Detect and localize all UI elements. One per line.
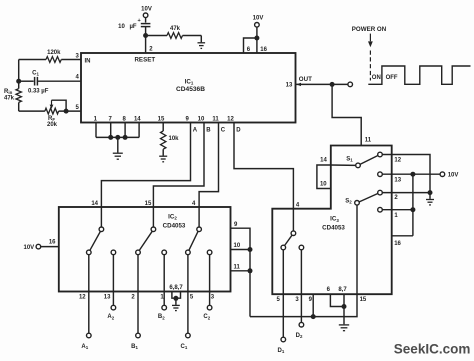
svg-text:47k: 47k (4, 95, 15, 101)
junction bus center (115, 135, 120, 140)
wire to ground (U3) (343, 307, 345, 325)
switch D throw right (299, 245, 304, 250)
terminal OUT (348, 82, 353, 87)
svg-text:µF: µF (129, 24, 136, 30)
svg-text:+: + (137, 18, 140, 24)
wire OUT (296, 83, 349, 85)
wire node to capacitor C1 (19, 80, 34, 82)
junction RF wiper tie (64, 109, 69, 114)
wire A1: throw to terminal (88, 255, 90, 334)
wire branch to U3 pin 9 (312, 294, 314, 316)
svg-text:16: 16 (260, 47, 267, 53)
terminal D2 (299, 322, 304, 327)
junction pin8 (123, 135, 128, 140)
switch D throw left (281, 245, 286, 250)
wire pin 13 (U3) to 10V (382, 173, 440, 175)
switch S2 lever (359, 194, 378, 202)
terminal A1 (87, 333, 92, 338)
svg-text:13: 13 (394, 177, 401, 183)
junction pin7 (108, 135, 113, 140)
wire D2: throw to terminal (300, 250, 302, 323)
wire ground node stem (429, 193, 431, 199)
svg-text:IN: IN (85, 58, 91, 64)
resistor Rin 47k (vertical) (16, 89, 21, 103)
terminal C2 (207, 305, 212, 310)
wire B1: throw to terminal (137, 255, 139, 334)
wire pin14 into switch S1 (331, 164, 356, 166)
junction reset node (143, 33, 148, 38)
wire to ground (175, 298, 177, 305)
wire Rin bottom lead (18, 102, 20, 111)
wire pin 14 down (138, 123, 140, 138)
svg-text:A2: A2 (107, 314, 114, 320)
svg-text:14: 14 (91, 201, 98, 207)
svg-text:CD4053: CD4053 (322, 225, 345, 232)
wire 10V to capacitor (145, 18, 147, 23)
ground (U3 pins 12,2) (426, 200, 434, 205)
wire 10V down to junction (256, 27, 258, 38)
junction bus to U3 pin9 (311, 314, 316, 319)
wire wiper to right lead (52, 100, 67, 111)
wire pin 2 (U3) to ground junction (382, 192, 430, 194)
switch S1 common contact (356, 163, 361, 168)
svg-text:14: 14 (134, 117, 141, 123)
svg-text:ON: ON (372, 75, 381, 81)
junction pin1 net (410, 207, 415, 212)
switch A common contact (99, 227, 104, 232)
svg-text:CD4053: CD4053 (163, 222, 186, 229)
svg-text:D: D (236, 128, 241, 134)
wire 10V net vertical (412, 174, 414, 236)
power terminal 10V (U2 pin 16) (36, 244, 41, 249)
ground (10k) (159, 156, 167, 162)
svg-text:13: 13 (286, 83, 293, 89)
svg-text:15: 15 (145, 201, 152, 207)
svg-text:6,8,7: 6,8,7 (169, 285, 183, 291)
switch B common contact (151, 227, 156, 232)
switch S1 lever (360, 156, 378, 165)
wire 10V to pin 16 (41, 246, 59, 248)
wire supply node to pin 16 (256, 38, 258, 53)
svg-text:11: 11 (212, 117, 219, 123)
wire pins 6,8,7 tie (172, 292, 181, 299)
wire net to pin 16 (U3) (392, 235, 413, 237)
wire net C: U1 pin11 to U2 pin4 (199, 123, 218, 208)
junction 6,8,7 (173, 296, 178, 301)
svg-text:16: 16 (49, 240, 56, 246)
svg-text:14: 14 (320, 158, 327, 164)
resistor 47k (reset pull) (167, 33, 183, 39)
wire pin15 to contact (152, 207, 154, 227)
wire bus to ground (117, 137, 119, 152)
svg-text:10: 10 (198, 117, 205, 123)
svg-text:Rin: Rin (4, 89, 13, 95)
svg-text:A: A (193, 128, 198, 134)
wire jumper pins 14-10 (U3) (317, 165, 331, 189)
potentiometer RF 20k (rheostat) (45, 108, 59, 114)
switch B throw left (136, 250, 141, 255)
svg-text:CD4536B: CD4536B (176, 86, 205, 93)
svg-text:13: 13 (104, 294, 111, 300)
wire 120k to pin 3 (61, 59, 81, 61)
svg-text:20k: 20k (47, 122, 58, 128)
wire pin 1 (U3) to 10V net (382, 209, 413, 211)
waveform output square wave (368, 66, 470, 84)
svg-text:B: B (206, 128, 211, 134)
switch S1 throw up (pin 12) (378, 152, 383, 157)
wire 47k to ground (183, 35, 202, 37)
resistor 120k (46, 57, 61, 63)
terminal C1 (186, 333, 191, 338)
svg-text:RESET: RESET (134, 56, 155, 63)
junction pin10 tie (248, 247, 253, 252)
svg-text:C1: C1 (32, 70, 39, 76)
wire pin 7 down (110, 123, 112, 138)
svg-text:10V: 10V (24, 245, 35, 251)
switch A lever (90, 231, 101, 250)
svg-text:B2: B2 (158, 314, 165, 320)
junction pin11 tie (248, 268, 253, 273)
svg-text:15: 15 (158, 117, 165, 123)
svg-text:10V: 10V (448, 173, 459, 179)
wire common bus to U3 pin 15 (250, 294, 357, 316)
junction ground node (428, 190, 433, 195)
switch C common contact (197, 227, 202, 232)
svg-text:OFF: OFF (386, 75, 398, 81)
op IC U2 CD4053 body (59, 207, 231, 292)
junction OUT node (330, 82, 335, 87)
wire pin 10 out (231, 249, 251, 251)
svg-text:15: 15 (360, 297, 367, 303)
wire C2: throw to terminal (209, 255, 211, 306)
wire capacitor to reset node (145, 27, 147, 53)
svg-text:C: C (221, 128, 226, 134)
svg-text:12: 12 (79, 294, 86, 300)
wire pin 1 down (95, 123, 97, 138)
svg-text:12: 12 (227, 117, 234, 123)
wire OUT node to U3 pin 11 (332, 84, 361, 145)
svg-text:120k: 120k (47, 50, 61, 56)
wire 10k to ground (162, 149, 164, 155)
wire pin 15 down (162, 123, 164, 132)
capacitor 10uF (electrolytic, polarity +) (141, 23, 151, 25)
switch C throw left (186, 250, 191, 255)
ground (U3 pins 6,8,7) (339, 325, 349, 331)
wire S2 common to pin 15 (356, 205, 358, 294)
svg-text:10k: 10k (169, 136, 180, 142)
svg-text:10: 10 (234, 243, 241, 249)
wire B2: throw to terminal (163, 255, 165, 306)
wiper arrow of RF (51, 100, 53, 105)
svg-text:16: 16 (394, 241, 401, 247)
svg-text:SeekIC.com: SeekIC.com (394, 342, 471, 357)
wire pin 12 (U3) to ground rail (382, 155, 430, 193)
junction 10V supply node (254, 36, 259, 41)
svg-text:8,7: 8,7 (338, 287, 347, 293)
wire pin 11 out (231, 270, 251, 272)
wire pin14 to contact (100, 207, 102, 227)
wire net A: U1 pin9 to U2 pin14 (101, 123, 190, 208)
svg-text:11: 11 (365, 137, 372, 143)
terminal B2 (162, 305, 167, 310)
wire net B: U1 pin10 to U2 pin15 (153, 123, 204, 208)
junction 6,8,7 (U3) (342, 304, 347, 309)
terminal D1 (281, 337, 286, 342)
ground (U2 pins 6,8,7) (172, 305, 180, 310)
switch B lever (139, 231, 152, 250)
wire pin 8 down (124, 123, 126, 138)
switch S2 throw up (pin 2) (378, 190, 383, 195)
wire pin 9 out (231, 228, 251, 316)
svg-text:12: 12 (394, 158, 401, 164)
wire left vertical (Rin top lead) (18, 60, 20, 89)
svg-text:10V: 10V (253, 15, 264, 21)
capacitor C1 0.33uF (34, 77, 36, 86)
svg-text:10: 10 (320, 181, 327, 187)
svg-text:B1: B1 (131, 344, 138, 350)
junction C1 node (16, 79, 21, 84)
switch B throw right (162, 250, 167, 255)
wire net D: U1 pin12 to U3 pin4 (234, 123, 293, 231)
ground (U1 pins 1,7,8,14) (113, 153, 123, 159)
switch S2 throw down (pin 1) (378, 207, 383, 212)
svg-text:10V: 10V (141, 6, 152, 12)
svg-text:S2: S2 (345, 198, 352, 204)
power terminal 10V (right) (440, 172, 445, 177)
ground (reset 47k) (198, 43, 206, 49)
wire C1 to pin 4 (37, 80, 81, 82)
svg-text:D2: D2 (296, 333, 303, 339)
arrow power-on (dashed pointer) (369, 34, 371, 42)
wire C1: throw to terminal (187, 255, 189, 334)
wire supply node to pin 6 (244, 38, 257, 53)
wire node to resistor 47k (146, 35, 167, 37)
wire pin4 to contact (198, 207, 200, 227)
svg-text:C1: C1 (181, 344, 188, 350)
svg-text:OUT: OUT (299, 76, 312, 83)
switch D common contact (291, 231, 296, 236)
svg-text:C2: C2 (203, 314, 210, 320)
op IC U1 CD4536B body (81, 53, 296, 123)
svg-text:RF: RF (48, 116, 55, 122)
svg-text:S1: S1 (346, 156, 353, 162)
wire D1: throw to terminal (282, 250, 284, 337)
wire RF to pin 5 (59, 110, 81, 112)
junction pin13 net (410, 172, 415, 177)
svg-text:0.33 µF: 0.33 µF (28, 89, 49, 95)
switch A throw right (111, 250, 116, 255)
svg-text:11: 11 (234, 265, 241, 271)
wire pins 6,8,7 tie (U3) (330, 294, 344, 306)
switch D lever (285, 235, 292, 245)
switch S2 common contact (355, 201, 360, 206)
terminal A2 (111, 305, 116, 310)
wire IN node to 120k (19, 59, 46, 61)
wire A2: throw to terminal (112, 255, 114, 306)
svg-text:10: 10 (118, 24, 125, 30)
svg-text:47k: 47k (170, 26, 181, 32)
wire left to RF (19, 110, 45, 112)
arrow at pin 13 output (296, 83, 301, 86)
svg-text:A1: A1 (81, 344, 88, 350)
switch A throw left (87, 250, 92, 255)
switch S1 throw down (pin 13) (378, 172, 383, 177)
switch C lever (189, 231, 198, 250)
switch C throw right (207, 250, 212, 255)
svg-text:POWER ON: POWER ON (352, 26, 387, 33)
svg-text:D1: D1 (278, 348, 285, 354)
op IC U3 CD4053 body (272, 146, 391, 295)
terminal B1 (136, 333, 141, 338)
wire ground bus (96, 136, 139, 138)
resistor 10k (161, 131, 166, 149)
